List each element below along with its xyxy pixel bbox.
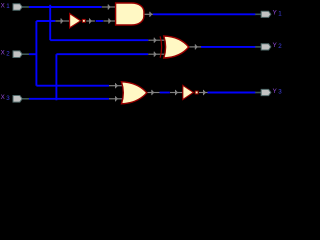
svg-text:1: 1 (278, 10, 282, 17)
svg-text:Y: Y (273, 10, 277, 17)
svg-text:2: 2 (278, 43, 282, 50)
svg-text:X: X (1, 50, 5, 57)
svg-text:1: 1 (6, 3, 10, 10)
svg-text:3: 3 (6, 95, 10, 102)
svg-text:Y: Y (273, 42, 277, 49)
svg-text:2: 2 (6, 50, 10, 57)
svg-text:Y: Y (273, 88, 277, 95)
svg-text:X: X (1, 94, 5, 101)
svg-text:X: X (1, 2, 5, 9)
svg-text:3: 3 (278, 89, 282, 96)
